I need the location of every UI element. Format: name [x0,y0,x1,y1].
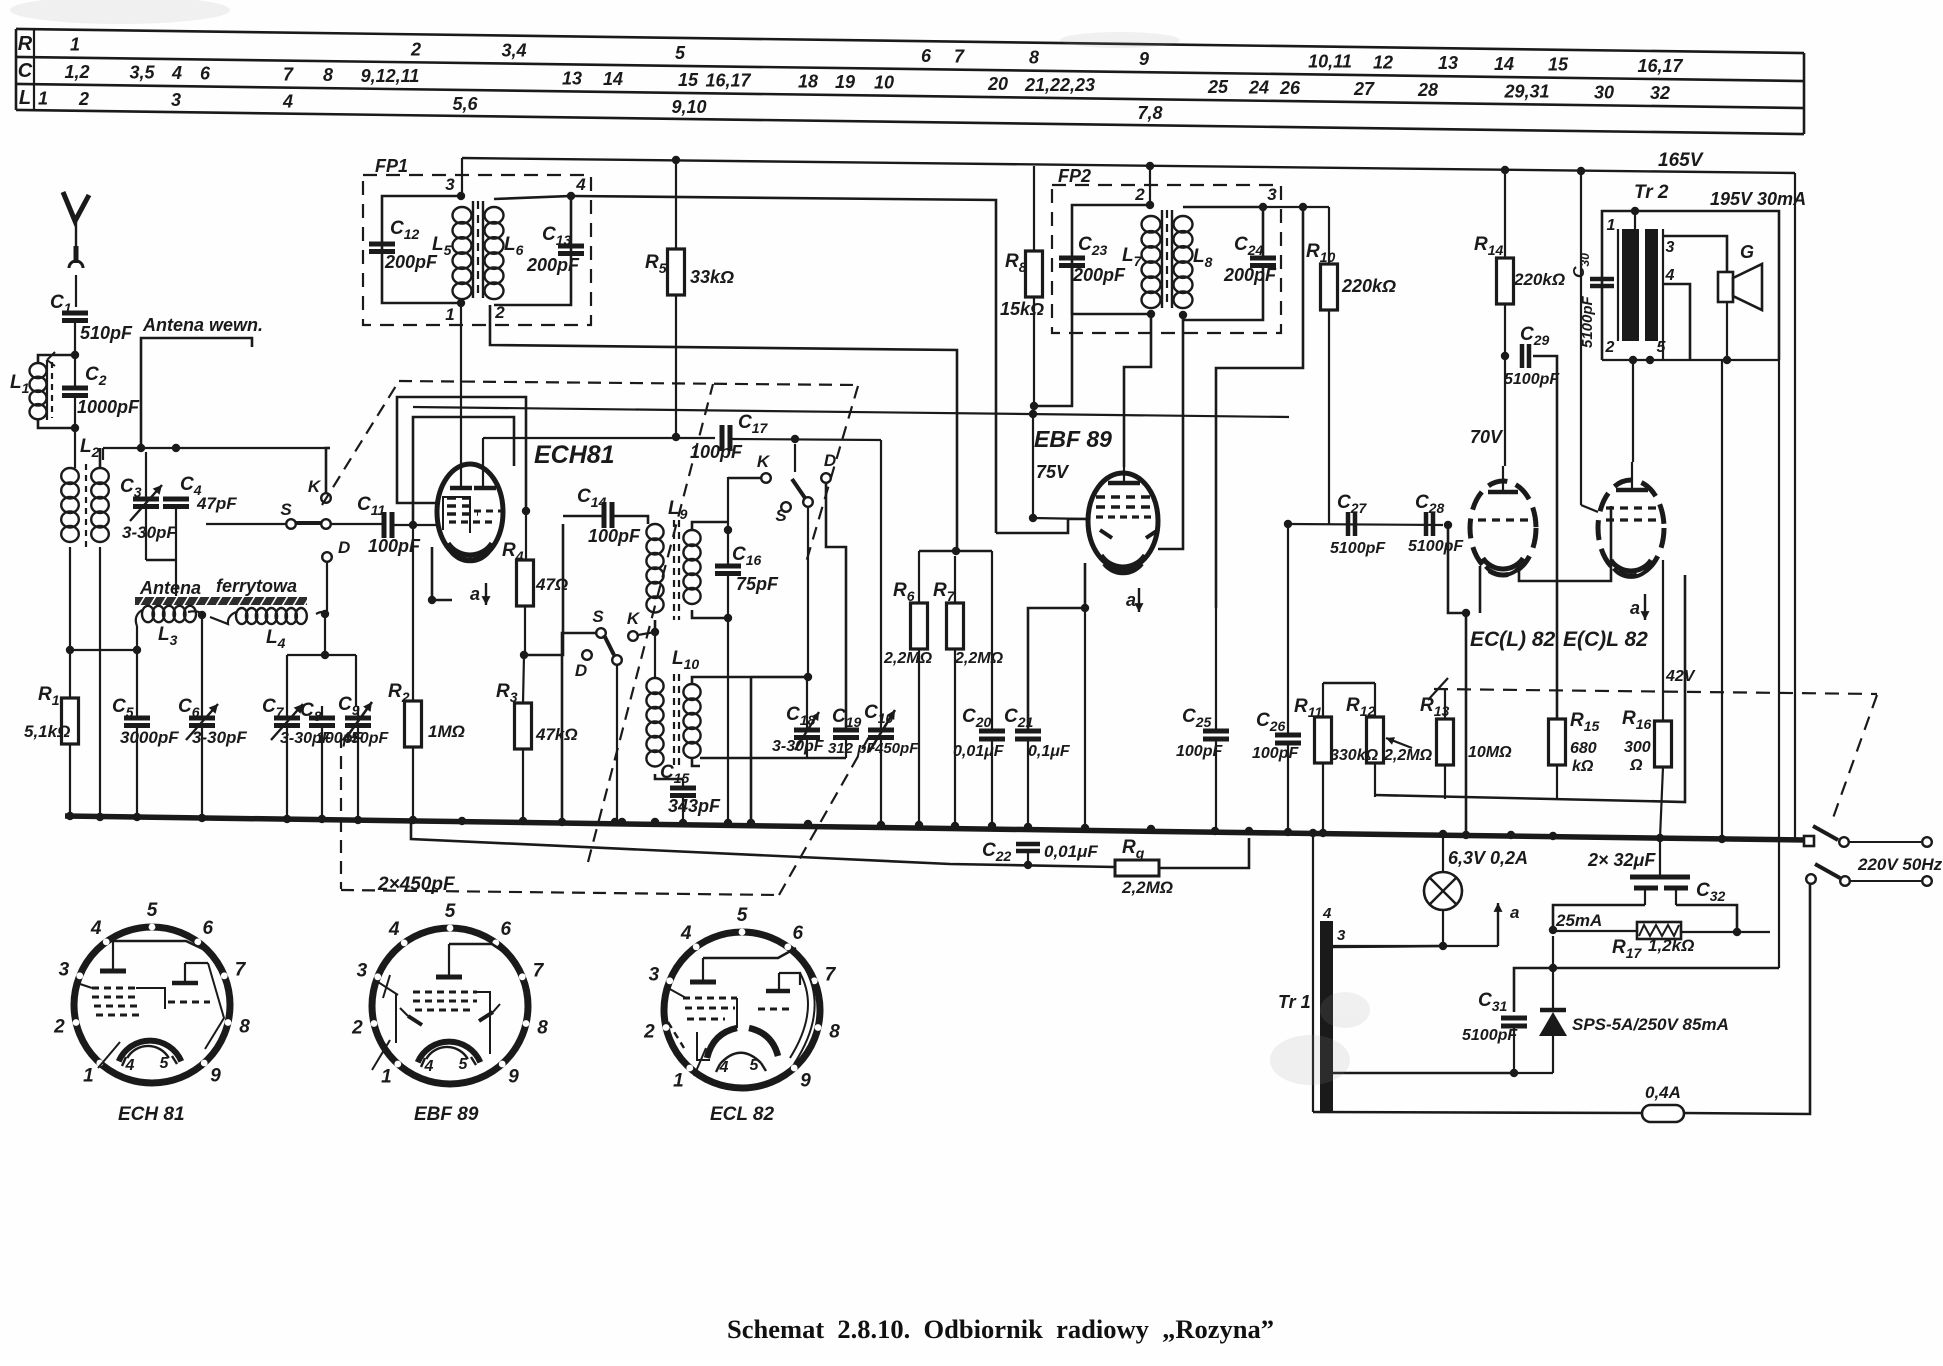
svg-text:0,4A: 0,4A [1645,1083,1681,1102]
wire C18 C19 bottoms [700,757,846,760]
wire C29 right elbow [1533,356,1557,719]
wire C14 right [614,516,648,524]
svg-text:6,3V 0,2A: 6,3V 0,2A [1448,848,1528,868]
node tube1 grid [1462,609,1470,617]
wire D1 to L4 node [326,612,328,616]
wire pivot to bus branch [750,677,753,822]
EC(L)82 plate stem [1502,466,1504,492]
svg-text:5: 5 [1657,339,1667,356]
svg-text:5100pF: 5100pF [1408,538,1464,555]
socket EBF89 anode bar [436,975,462,980]
node C16 top [724,526,732,534]
node antena-wewn join [137,444,145,452]
svg-text:3-30pF: 3-30pF [122,523,177,542]
socket EBF89 diode plates [408,1012,493,1025]
IF transformer FP2 box [1052,185,1281,333]
contact D1 [322,552,332,562]
svg-text:29,31: 29,31 [1503,81,1549,101]
svg-text:4: 4 [90,918,102,939]
svg-text:3,4: 3,4 [501,41,526,61]
svg-text:42V: 42V [1665,668,1696,685]
svg-text:ECH81: ECH81 [534,441,615,469]
tube EC(L)82 first [1470,481,1536,575]
wire Tr1 tap3 [1333,946,1443,947]
socket ECL82 pin3 wire [668,988,686,998]
wire 802-line [1375,575,1685,802]
svg-text:0,1μF: 0,1μF [1028,743,1071,760]
svg-text:C32: C32 [1696,880,1726,904]
wire C3 [145,448,147,499]
svg-text:S: S [280,500,292,519]
socket ECL82 right arcs [790,973,808,1058]
node diode top [1549,964,1557,972]
wire L10 sec top [692,677,808,684]
wire K2 left elbow [728,477,761,480]
svg-text:L1: L1 [10,372,30,396]
svg-text:15kΩ: 15kΩ [1000,299,1044,319]
svg-text:C28: C28 [1415,492,1445,516]
wire EBF89 grid stub [996,519,1090,533]
svg-text:13: 13 [1438,53,1458,73]
svg-text:1: 1 [1324,1085,1332,1102]
svg-text:L3: L3 [158,624,178,648]
socket ECL82 cathode arcs [707,1028,737,1058]
svg-text:4: 4 [719,1059,729,1076]
wire K3 to L9 [638,632,655,635]
svg-text:8: 8 [323,65,333,85]
svg-text:C16: C16 [732,544,762,568]
svg-text:3: 3 [649,964,660,985]
wire speaker return [1721,360,1723,839]
svg-text:47kΩ: 47kΩ [535,725,578,744]
wire tube bottom left elbow [432,547,452,600]
svg-text:3-30pF: 3-30pF [192,728,247,747]
svg-text:100pF: 100pF [1252,745,1299,762]
E(C)L82 grid rows [1606,506,1660,509]
svg-text:R12: R12 [1346,695,1376,719]
svg-text:2× 32μF: 2× 32μF [1587,850,1656,870]
wire C8 to bus [321,706,323,718]
wire S1 to C11 [331,523,382,525]
svg-text:195V 30mA: 195V 30mA [1710,189,1806,209]
svg-text:12: 12 [1373,52,1393,72]
svg-text:26: 26 [1279,78,1301,98]
svg-text:R15: R15 [1570,710,1600,734]
wire cathode to C21 [1028,608,1068,731]
svg-text:0,01μF: 0,01μF [1044,842,1098,861]
socket ECL82 heater arc [720,1053,761,1064]
svg-text:D: D [575,661,587,680]
dashed gang line switch1 [322,381,399,505]
wire R11 [1322,683,1324,717]
contact pivot3 [612,655,622,665]
svg-text:75pF: 75pF [736,574,779,594]
svg-text:200pF: 200pF [1223,265,1277,285]
wire 524-line [1288,524,1443,525]
socket ECL82 grid mid wire [736,998,738,1028]
svg-text:L4: L4 [266,627,286,651]
dashed gang line switch2 [588,384,713,862]
resistor R1 [62,698,79,744]
socket EBF89 cathode arc [418,1042,481,1063]
wire C26 [1287,524,1289,735]
node FP1 pin1 [457,299,465,307]
coil L6 [485,207,504,224]
chassis bus wire [65,816,1806,840]
svg-text:5: 5 [737,905,748,926]
wire C21 to bus [1027,739,1029,831]
mains switch upper contact [1839,837,1849,847]
wire node to L2 [74,428,76,468]
svg-text:3: 3 [1666,239,1675,256]
bus junction dots [66,812,74,820]
svg-text:1: 1 [70,35,80,55]
node FP1 pin4 [567,192,575,200]
socket ECH81 anode bar [100,969,126,974]
svg-text:6: 6 [203,918,214,939]
svg-text:9: 9 [210,1066,221,1087]
wire pivot down [807,507,809,677]
wire C4 down [175,507,177,560]
node C2-L2 [71,424,79,432]
node FP2 pin2 [1146,201,1154,209]
svg-text:7: 7 [235,959,247,980]
svg-text:100pF: 100pF [588,526,641,546]
wire line4 [413,407,1289,417]
wire C6 to bus [201,704,203,718]
wire C22 stub [1027,851,1029,864]
wire antenna to node [74,322,76,352]
node switch2 top [791,435,799,443]
svg-text:25: 25 [1207,77,1229,97]
wire C3C4 bottom to L3 node [159,559,162,562]
wire Tr2 sec tap3 [1663,236,1727,272]
node top R5 [672,156,680,164]
socket ECL82 grid dashes [683,997,737,1000]
EBF89 plate stem [1123,467,1125,483]
wire R4 bottom [524,606,526,655]
wire D1 down [326,562,328,612]
svg-text:R14: R14 [1474,234,1504,258]
svg-text:C3: C3 [120,476,142,500]
antenna [63,192,89,221]
resistor R12 potentiometer [1367,717,1384,763]
svg-text:K: K [757,452,771,471]
wire R16 [1662,560,1664,721]
loudspeaker G [1718,272,1733,302]
dashed gang vertical [340,735,342,889]
fuse 0,4A [1642,1105,1684,1122]
wire node2 line [490,305,957,549]
tube E(C)L82 second [1598,480,1664,576]
EBF89 diode plates [1100,530,1158,538]
contact D2 [821,473,831,483]
svg-text:5100pF: 5100pF [1462,1027,1518,1044]
socket ECL82 ring and pins [664,932,820,1088]
resistor R16 [1655,721,1672,767]
svg-text:7,8: 7,8 [1137,103,1162,123]
wire C31 bottom [1513,1026,1515,1072]
socket ECL82 triode anode bar [690,980,716,985]
svg-text:D: D [338,538,350,557]
wire osc loop inner [413,417,514,523]
coil L5 [453,207,472,224]
svg-text:5100pF: 5100pF [1504,371,1560,388]
wire R2 [412,525,414,701]
node antenna-L1 [71,351,79,359]
diode SPS [1540,1008,1566,1013]
capacitor C16 [715,564,741,569]
svg-text:kΩ: kΩ [1572,758,1594,775]
wire L9 sec bottom [692,610,728,618]
node EBF cathode [1081,604,1089,612]
svg-text:4: 4 [1322,905,1332,922]
wire Tr2 sec tap4 [1663,284,1690,359]
EC(L)82 plate bar [1488,490,1518,495]
svg-text:4: 4 [282,92,293,112]
resistor R4 [517,560,534,606]
capacitor C17 series [720,425,725,451]
wire C16 chain [727,477,729,566]
wire lamp top [1442,834,1444,872]
svg-text:0,01μF: 0,01μF [953,743,1005,760]
svg-text:ECL 82: ECL 82 [710,1104,775,1125]
Tr2 winding lines [1617,229,1619,341]
wire L1 parallel loop [38,355,75,363]
svg-text:R3: R3 [496,681,518,705]
svg-text:L9: L9 [668,498,688,522]
capacitor C7 variable [274,716,300,721]
node FP1 pin3 [457,192,465,200]
capacitor C28 series [1424,512,1429,536]
coil L10 primary [646,678,663,694]
svg-text:16,17: 16,17 [705,71,751,91]
svg-text:200pF: 200pF [384,252,438,272]
EC(L)82 grid dash [1478,518,1528,521]
coil L10 secondary [683,684,700,700]
socket ECL82 pin6 wire [703,948,796,958]
svg-text:1: 1 [38,88,48,108]
wire osc loop outer [397,397,526,509]
svg-text:18: 18 [798,72,818,92]
wire FP2 right loop [1183,207,1263,258]
socket EBF89 pin3 wire [378,982,398,995]
svg-text:Antena wewn.: Antena wewn. [142,315,263,335]
core L10 [673,674,675,768]
svg-text:5: 5 [147,900,158,921]
wire 437-line [483,437,715,439]
wire Tr2 bottom [1602,359,1779,361]
socket ECH81 triode dashes [168,1001,210,1004]
bus end terminal [1804,836,1814,846]
svg-text:5: 5 [750,1057,760,1074]
socket ECH81 triode grid [172,981,198,986]
wire FP1 left loop [382,196,461,303]
tube EBF89 [1088,473,1158,569]
svg-text:C23: C23 [1078,234,1108,258]
svg-text:Rg: Rg [1122,837,1145,861]
svg-text:FP2: FP2 [1058,166,1091,186]
svg-text:FP1: FP1 [375,156,408,176]
capacitor C8 [309,716,335,721]
svg-text:1,2kΩ: 1,2kΩ [1648,936,1694,955]
svg-text:9,10: 9,10 [671,97,706,117]
wire top right corner [1794,173,1796,838]
wire L9 sec top [692,522,728,530]
ECH81 anode plates [450,486,472,491]
svg-text:Schemat 2.8.10. Odbiornik r: Schemat 2.8.10. Odbiornik radiowy „Rozyn… [727,1314,1274,1344]
node line4 EBF [1029,410,1037,418]
dashed volume diagonal [1833,695,1877,818]
wire R12 [1374,683,1376,717]
wire L10 prim top [654,655,656,678]
wire C32 right elbow [1676,905,1737,932]
svg-text:G: G [1740,242,1754,262]
socket EBF89 pin1 wire [372,1040,390,1070]
wire tube1 left bottom [1479,566,1482,613]
svg-text:L2: L2 [80,436,100,460]
node top C30 [1577,167,1585,175]
wire L2 secondary down to bus [99,547,101,818]
svg-text:R: R [18,33,33,55]
node FP2 L8 bottom [1179,311,1187,319]
svg-text:L5: L5 [432,234,452,258]
svg-text:8: 8 [239,1016,250,1037]
socket EBF89 pin6 wire [449,944,504,952]
wire EBF anode riser [1032,414,1034,518]
switch blade S1 [296,521,321,525]
mains switch lower blade [1815,864,1840,878]
wire FP2 out down [1216,207,1303,608]
svg-text:19: 19 [835,72,855,92]
svg-text:4: 4 [680,923,692,944]
node 650 right [133,646,141,654]
svg-text:L6: L6 [504,234,524,258]
ECH81 cathode arc [448,543,492,555]
wire diode feed [1514,968,1779,1012]
svg-text:SPS-5A/250V 85mA: SPS-5A/250V 85mA [1572,1015,1729,1034]
svg-text:a: a [1510,903,1519,922]
svg-text:1: 1 [1607,217,1616,234]
EBF89 cathode arc [1101,555,1145,567]
wire FP2 pin2 riser [1149,166,1151,205]
ECH81 plate stems [460,465,462,488]
resistor R5 [668,249,685,295]
switch blade 2 [792,479,805,498]
EC(L)82 cathode arc [1483,558,1523,569]
svg-text:Tr 1: Tr 1 [1278,992,1311,1012]
svg-text:8: 8 [1029,48,1039,68]
svg-text:C14: C14 [577,486,607,510]
svg-text:3,5: 3,5 [129,63,155,83]
svg-text:10: 10 [874,73,894,93]
svg-text:330kΩ: 330kΩ [1330,747,1379,764]
mains upper terminal [1922,837,1932,847]
svg-text:C31: C31 [1478,990,1508,1014]
wire speaker bottom [1726,302,1728,360]
svg-text:C: C [18,60,33,82]
wire C10 chain [880,440,882,730]
socket ECL82 pin1 wire [694,1048,706,1076]
wire L10 sec bottom [692,758,700,766]
svg-text:70V: 70V [1470,427,1504,447]
svg-text:K: K [308,477,322,496]
capacitor C4 [163,497,189,502]
svg-text:8: 8 [537,1017,548,1038]
capacitor C6 variable [189,716,215,721]
wire L7 bottom to EBF anode [1124,314,1151,467]
capacitor C10 variable [868,728,894,733]
svg-text:3000pF: 3000pF [120,728,179,747]
wire FP1 pin1 down [460,303,462,466]
capacitor C27 series [1346,512,1351,536]
wire D2 elbow to C19 [826,483,846,728]
dashed gang diagonal right [779,737,869,895]
svg-text:15: 15 [678,70,699,90]
svg-text:S: S [592,607,604,626]
svg-text:20: 20 [987,74,1008,94]
svg-text:1,2: 1,2 [64,62,89,82]
svg-text:9: 9 [800,1071,811,1092]
svg-text:75V: 75V [1036,462,1070,482]
svg-text:3: 3 [1267,185,1277,204]
switch S1 wire [206,523,285,525]
svg-text:C12: C12 [390,218,420,242]
wire R10 chain [1328,207,1330,264]
capacitor C19 [833,728,859,733]
svg-text:4: 4 [424,1058,434,1075]
svg-text:4: 4 [125,1057,135,1074]
wire mains upper [1849,841,1921,843]
svg-text:C22: C22 [982,840,1012,864]
svg-text:7: 7 [954,47,965,67]
wire FP1 right loop [494,196,571,305]
lamp 6,3V [1424,872,1462,910]
wire L2 primary down [69,547,71,650]
svg-text:5: 5 [459,1056,469,1073]
svg-text:C5: C5 [112,696,134,720]
capacitor C23 [1059,256,1085,261]
svg-text:2: 2 [494,303,505,322]
svg-text:R2: R2 [388,681,410,705]
svg-text:C17: C17 [738,412,769,436]
node row930 right [1733,928,1741,936]
node C29 [1501,352,1509,360]
svg-text:R6: R6 [893,580,915,604]
svg-text:4: 4 [171,63,182,83]
svg-text:R10: R10 [1306,241,1336,265]
wire Tr2 primary top [1634,211,1636,229]
capacitor C12 [369,242,395,247]
E(C)L82 plate bar [1616,488,1648,493]
socket ECH81 pin6 wire [113,941,205,950]
node screen join [522,507,530,515]
svg-text:2: 2 [410,39,421,59]
svg-text:EBF 89: EBF 89 [414,1104,479,1125]
svg-text:ferrytowa: ferrytowa [216,576,297,596]
contact S1 right [321,519,331,529]
capacitor C18 variable [794,728,820,733]
coil L9 secondary [683,530,700,546]
socket ECH81 cathode arc [119,1041,182,1062]
svg-text:6: 6 [200,63,211,83]
transformer Tr2 frame [1602,211,1779,360]
resistor R6 [911,603,928,649]
wire heater row [1332,945,1498,947]
svg-text:47pF: 47pF [196,494,237,513]
socket EBF89 heater arc [426,1047,468,1059]
wire C14 bottom elbow [524,524,563,655]
